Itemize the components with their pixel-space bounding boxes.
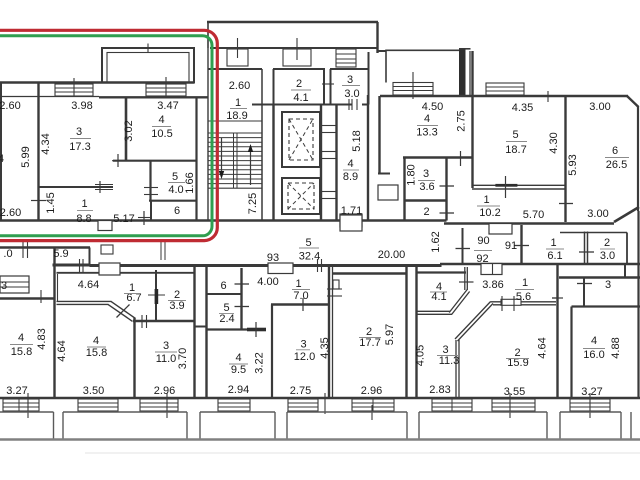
svg-text:7.25: 7.25	[247, 193, 259, 214]
svg-text:91: 91	[505, 240, 517, 252]
svg-text:1: 1	[522, 277, 528, 289]
svg-text:3.27: 3.27	[581, 386, 602, 398]
svg-text:4.1: 4.1	[431, 291, 446, 303]
svg-text:2: 2	[296, 78, 302, 90]
svg-text:1: 1	[550, 237, 556, 249]
svg-text:3.9: 3.9	[169, 300, 184, 312]
svg-text:3: 3	[300, 339, 306, 351]
svg-text:2: 2	[604, 237, 610, 249]
svg-text:4.05: 4.05	[415, 345, 427, 366]
svg-text:8.8: 8.8	[76, 213, 91, 225]
svg-text:3.70: 3.70	[177, 348, 189, 369]
svg-text:5.70: 5.70	[523, 209, 544, 221]
svg-text:.0: .0	[3, 248, 12, 260]
svg-text:3.02: 3.02	[123, 120, 135, 141]
svg-text:5.99: 5.99	[20, 146, 32, 167]
svg-text:3.47: 3.47	[157, 100, 178, 112]
svg-text:4.00: 4.00	[257, 276, 278, 288]
svg-text:4: 4	[93, 335, 99, 347]
svg-text:4: 4	[235, 352, 241, 364]
svg-text:9.5: 9.5	[231, 364, 246, 376]
svg-text:2.96: 2.96	[154, 385, 175, 397]
svg-text:6: 6	[220, 280, 226, 292]
svg-text:15.8: 15.8	[11, 346, 32, 358]
svg-text:4.64: 4.64	[78, 279, 99, 291]
svg-text:2: 2	[423, 206, 429, 218]
svg-text:4.34: 4.34	[40, 133, 52, 154]
svg-text:2.94: 2.94	[228, 384, 249, 396]
svg-text:3.00: 3.00	[589, 101, 610, 113]
svg-text:2.75: 2.75	[456, 110, 468, 131]
svg-text:4: 4	[0, 153, 4, 165]
svg-text:20.00: 20.00	[378, 249, 406, 261]
svg-text:3: 3	[605, 279, 611, 291]
svg-text:13.3: 13.3	[416, 127, 437, 139]
svg-text:4: 4	[158, 114, 164, 126]
svg-text:2.83: 2.83	[429, 384, 450, 396]
svg-text:10.5: 10.5	[151, 128, 172, 140]
svg-text:4.88: 4.88	[610, 337, 622, 358]
svg-text:3.50: 3.50	[83, 385, 104, 397]
svg-text:32.4: 32.4	[299, 251, 320, 263]
svg-text:3.27: 3.27	[6, 385, 27, 397]
svg-text:1.71: 1.71	[341, 205, 362, 217]
svg-text:2.75: 2.75	[290, 385, 311, 397]
svg-text:17.3: 17.3	[69, 141, 90, 153]
svg-text:3.6: 3.6	[419, 181, 434, 193]
svg-text:7.0: 7.0	[293, 290, 308, 302]
svg-text:5.6: 5.6	[516, 291, 531, 303]
svg-text:1: 1	[483, 194, 489, 206]
svg-text:4.1: 4.1	[293, 92, 308, 104]
svg-text:4.64: 4.64	[56, 340, 68, 361]
svg-text:3.00: 3.00	[587, 208, 608, 220]
svg-text:4.0: 4.0	[168, 184, 183, 196]
svg-text:16.0: 16.0	[583, 349, 604, 361]
svg-text:1.62: 1.62	[430, 231, 442, 252]
svg-text:5: 5	[305, 237, 311, 249]
svg-text:2.60: 2.60	[0, 100, 21, 112]
svg-text:17.7: 17.7	[359, 337, 380, 349]
svg-text:3: 3	[1, 280, 7, 292]
svg-text:90: 90	[477, 235, 489, 247]
svg-text:10.2: 10.2	[479, 207, 500, 219]
svg-text:12.0: 12.0	[294, 351, 315, 363]
svg-text:4: 4	[347, 158, 353, 170]
svg-text:4.35: 4.35	[512, 102, 533, 114]
svg-text:3: 3	[347, 74, 353, 86]
svg-text:1.66: 1.66	[184, 172, 196, 193]
svg-text:1.45: 1.45	[45, 192, 57, 213]
svg-text:3.22: 3.22	[254, 352, 266, 373]
svg-text:5: 5	[512, 129, 518, 141]
svg-text:3.0: 3.0	[344, 88, 359, 100]
svg-text:4.64: 4.64	[537, 337, 549, 358]
svg-text:1: 1	[81, 198, 87, 210]
svg-text:4: 4	[424, 113, 430, 125]
svg-text:5.17: 5.17	[113, 213, 134, 225]
svg-text:1.80: 1.80	[406, 164, 418, 185]
svg-text:4.35: 4.35	[319, 337, 331, 358]
svg-text:2.96: 2.96	[361, 385, 382, 397]
svg-text:6: 6	[612, 145, 618, 157]
svg-text:5.9: 5.9	[53, 248, 68, 260]
svg-text:2.60: 2.60	[229, 80, 250, 92]
svg-text:5.93: 5.93	[567, 154, 579, 175]
svg-text:4.83: 4.83	[36, 328, 48, 349]
svg-text:2.4: 2.4	[219, 313, 234, 325]
svg-text:11.0: 11.0	[156, 353, 177, 365]
svg-text:4: 4	[18, 332, 24, 344]
svg-text:1: 1	[235, 97, 241, 109]
svg-text:6: 6	[174, 205, 180, 217]
svg-text:3.98: 3.98	[71, 100, 92, 112]
svg-text:3: 3	[76, 126, 82, 138]
svg-text:3: 3	[163, 340, 169, 352]
svg-text:3.55: 3.55	[504, 386, 525, 398]
svg-text:18.7: 18.7	[505, 144, 526, 156]
svg-text:18.9: 18.9	[226, 110, 247, 122]
svg-text:8.9: 8.9	[343, 171, 358, 183]
svg-text:5: 5	[172, 171, 178, 183]
svg-text:3.86: 3.86	[482, 279, 503, 291]
svg-text:26.5: 26.5	[606, 159, 627, 171]
svg-text:11.3: 11.3	[439, 355, 460, 367]
svg-text:4.50: 4.50	[422, 101, 443, 113]
svg-text:2.60: 2.60	[0, 207, 21, 219]
svg-text:5.18: 5.18	[351, 130, 363, 151]
svg-text:1: 1	[295, 278, 301, 290]
svg-text:5.97: 5.97	[384, 324, 396, 345]
svg-text:4.30: 4.30	[548, 132, 560, 153]
svg-text:92: 92	[476, 253, 488, 265]
svg-text:3.0: 3.0	[600, 250, 615, 262]
svg-text:93: 93	[267, 252, 279, 264]
svg-text:3: 3	[423, 168, 429, 180]
svg-text:15.8: 15.8	[86, 347, 107, 359]
svg-text:6.1: 6.1	[547, 250, 562, 262]
svg-text:4: 4	[591, 335, 597, 347]
